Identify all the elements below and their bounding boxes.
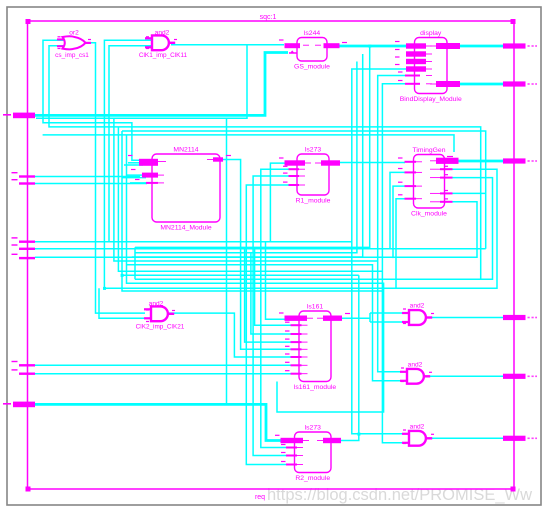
pin TimingGen out4 thin <box>440 192 453 194</box>
input port clr (bus) <box>3 113 35 119</box>
pin TimingGen in2 <box>405 171 417 173</box>
wire display thin pin y75.5 vertical to gate2 <box>378 76 408 372</box>
pin stubs R2 inner <box>297 441 323 465</box>
pin name marks R1 <box>279 157 288 182</box>
pin display out1 <box>436 43 460 49</box>
wire bundle y291 <box>122 275 384 291</box>
wire or2 input2 long run to right column <box>49 46 481 280</box>
pin ls161 thin3 <box>291 341 302 343</box>
wire display thin pin y83.8 vertical to gate3 <box>382 84 408 443</box>
and-gate ClK1 <box>139 30 188 60</box>
wire bundle y257 to display <box>132 54 363 257</box>
wire timinggen left pin4 feeder <box>396 199 405 289</box>
pin ls161 in bus <box>285 316 308 321</box>
wire port4 long to timinggen column <box>35 248 486 250</box>
and-gate U3 right <box>402 424 432 446</box>
wire ls161 thin feeder y325 <box>255 249 302 325</box>
pin ls161 out bus <box>323 316 342 321</box>
pin display in2 <box>406 51 426 56</box>
wire MN2114 stub pin wires <box>122 163 149 183</box>
input port a <box>12 237 36 243</box>
wire display pin y69 long vertical <box>352 69 408 434</box>
pin ls161 thin5 <box>291 356 302 358</box>
pin display in4 <box>406 66 426 71</box>
pin R1 in thin2 <box>289 175 300 177</box>
frame title sqc:1 <box>260 14 277 21</box>
pin display out2 <box>436 81 460 87</box>
pin display in1 <box>406 43 426 48</box>
block ls161_module <box>294 304 337 392</box>
svg-text:cs_imp_cs1: cs_imp_cs1 <box>55 52 89 59</box>
pin ls161 thin4 <box>291 348 302 350</box>
pin R1 in thin1 <box>289 168 300 170</box>
wire and2 ClK1 output to ls244 input <box>171 44 284 46</box>
pin stubs R1 inner <box>299 163 321 185</box>
watermark text <box>267 486 532 504</box>
pin TimingGen out5 thin <box>440 201 453 203</box>
input port data (bus) <box>3 402 35 408</box>
svg-text:or2: or2 <box>69 30 79 37</box>
wire timinggen left pin2 feeder <box>390 172 405 248</box>
input port din1 <box>12 172 36 178</box>
svg-text:req: req <box>255 494 265 501</box>
wire long horizontal y131 to right column <box>122 131 486 249</box>
wire R1 input from bundle <box>270 163 287 242</box>
svg-text:ls244: ls244 <box>304 30 320 37</box>
svg-text:ls161_module: ls161_module <box>294 384 337 391</box>
wire port6 to ls161 <box>35 364 302 366</box>
pin R2 thin3 <box>286 464 297 466</box>
pin ls161 thin2 <box>291 333 302 335</box>
pin name marks R2 <box>275 435 286 462</box>
wire port7 to ls161 <box>35 373 302 375</box>
pin ls161 thin6 <box>291 364 302 366</box>
pin display in5 thin <box>405 75 420 77</box>
and-gate U2 right <box>400 362 430 384</box>
wire timinggen right thin pin3 stub <box>452 192 486 194</box>
junction dot <box>103 45 371 436</box>
pin stubs TimingGen inner <box>416 161 440 202</box>
wire timinggen right thin pin2 down <box>135 178 493 280</box>
wire and2 gate3 output to port <box>430 437 504 439</box>
pin name marks ls244 <box>279 39 347 43</box>
svg-text:and2: and2 <box>408 362 423 369</box>
frame label req <box>255 494 265 501</box>
wire R1 thin pin2 down to R2 <box>253 176 291 456</box>
pin MN2114 in3 thin <box>146 182 158 184</box>
pin name marks display <box>395 41 403 81</box>
wire and2 ClK1 input1 vertical <box>104 40 151 288</box>
svg-text:and2: and2 <box>149 301 164 308</box>
pin R2 out bus <box>323 438 341 443</box>
wire vertical x118.4 bundle <box>118 127 382 271</box>
pin TimingGen in1 <box>405 161 417 163</box>
pin marks gates <box>58 36 435 444</box>
wire long vertical x226.5 <box>226 118 228 404</box>
wire bundle y264.7 to and2 gate2 input2 <box>127 265 402 381</box>
pin ls161 thin7 <box>291 373 302 375</box>
wire R1 output to TimingGen <box>340 162 405 164</box>
pin MN2114 in1 bus <box>139 159 158 166</box>
wire port3 to display column <box>35 241 352 243</box>
pin R2 in bus <box>281 438 304 443</box>
pin TimingGen in4 <box>405 198 417 200</box>
wire port5 long to timinggen column <box>35 202 477 257</box>
wire bus from port clr to ls244 clk column <box>35 53 288 116</box>
pin TimingGen in3 <box>405 185 417 187</box>
and-gate U1 right <box>402 303 432 325</box>
svg-text:R1_module: R1_module <box>296 198 331 205</box>
pin stubs display inner <box>426 46 436 84</box>
pin name marks ls161 <box>279 312 350 371</box>
svg-text:R2_module: R2_module <box>295 475 330 482</box>
wire timinggen output bus to port <box>458 160 503 163</box>
output port q2 <box>503 374 537 379</box>
input port d <box>12 361 36 367</box>
pin display in6 thin <box>405 83 420 85</box>
and-gate ClK2 <box>136 301 185 331</box>
pin R2 thin2 <box>286 455 297 457</box>
svg-text:ls161: ls161 <box>307 304 323 311</box>
svg-text:MN2114_Module: MN2114_Module <box>160 225 211 232</box>
pin R2 thin1 <box>286 447 297 449</box>
svg-text:ClK1_imp_ClK11: ClK1_imp_ClK11 <box>139 52 188 59</box>
svg-text:BindDisplay_Module: BindDisplay_Module <box>400 96 462 103</box>
wire display output1 to port <box>456 45 503 48</box>
wire bundle y247.4 <box>135 46 370 247</box>
output port q1 <box>503 315 537 320</box>
output port seg <box>503 43 537 48</box>
wire and2 ClK2 input2 from bundle <box>99 288 145 318</box>
wire or2 input1 loop <box>43 40 143 160</box>
wire from port at y118 to ls244 input column <box>36 45 247 118</box>
svg-text:and2: and2 <box>410 424 425 431</box>
wire R2 output up <box>341 275 359 440</box>
block ls244 GS_module <box>294 30 330 71</box>
svg-text:ls273: ls273 <box>305 147 321 154</box>
pin TimingGen out bus <box>436 158 459 164</box>
wire below ls161 to right column <box>277 283 384 413</box>
pin display in3 <box>406 59 426 64</box>
wire vertical x113.9 bundle <box>114 118 378 261</box>
wire ls161 thin feeder y342 <box>245 247 302 342</box>
input port din2 <box>12 179 36 185</box>
input port b <box>12 244 36 250</box>
pin R1 out bus <box>321 160 340 165</box>
svg-text:Clk_module: Clk_module <box>411 211 447 218</box>
svg-text:MN2114: MN2114 <box>173 147 198 154</box>
pin ls244 input <box>285 43 301 48</box>
block ls273 R2_module <box>295 425 332 483</box>
svg-text:sqc:1: sqc:1 <box>260 14 277 21</box>
wire ls161 thin feeder y334 <box>251 253 302 334</box>
wire ls161 clock feeder <box>266 242 286 320</box>
wire MN2114 output down <box>223 160 302 350</box>
wire or2 output down to and2 ClK2 input1 <box>86 43 145 313</box>
output port clkout <box>503 158 537 163</box>
svg-text:ls273: ls273 <box>305 425 321 432</box>
pin stubs ls161 inner <box>302 318 324 374</box>
block TimingGen Clk_module <box>411 147 447 218</box>
pin name marks MN2114 <box>128 155 231 180</box>
wire ls161 output to and2 gate1 <box>342 313 403 322</box>
output port q3 <box>503 436 537 441</box>
wire bundle y252.7 to display <box>135 62 357 253</box>
wire port din2 to MN2114 <box>35 183 147 185</box>
pin TimingGen out2 thin <box>440 168 453 170</box>
wire vertical x126.5 bundle <box>127 135 384 283</box>
block MN2114_Module <box>152 147 220 232</box>
wire R1 thin pin3 down to R2 <box>246 185 291 465</box>
pin stubs MN2114 inner <box>158 160 213 183</box>
svg-text:display: display <box>420 30 442 37</box>
wire bundle y288.3 to timinggen pin <box>104 169 497 288</box>
svg-text:and2: and2 <box>155 30 170 37</box>
pin stubs ls244 inner <box>303 44 321 46</box>
pin TimingGen out3 thin <box>440 177 453 179</box>
pin ls244 output <box>324 43 340 48</box>
pin name marks TimingGen <box>398 156 453 200</box>
wire bus port8 to R2 input <box>35 404 281 440</box>
pin R1 in thin3 <box>289 184 300 186</box>
pin ls244 clk <box>289 50 298 53</box>
wire timinggen left pin3 feeder <box>393 186 405 258</box>
block display BindDisplay_Module <box>400 30 462 103</box>
pin MN2114 out <box>213 157 223 161</box>
input port c <box>12 254 36 260</box>
wire ls244 output bus to display <box>339 45 408 48</box>
wire and2 gate1 output to port <box>430 317 504 319</box>
wire vertical x122 bundle <box>122 131 359 275</box>
wire and2 ClK2 output down to ls161 <box>169 313 302 357</box>
output port sel <box>503 81 537 86</box>
wire vertical x135 bundle tie <box>134 247 136 279</box>
svg-text:GS_module: GS_module <box>294 64 330 71</box>
svg-text:and2: and2 <box>410 303 425 310</box>
input port e <box>12 369 36 375</box>
pin ls161 thin1 <box>291 324 302 326</box>
pin MN2114 in2 <box>142 173 158 178</box>
pin R1 in bus <box>285 160 306 165</box>
wire R1 thin pin1 down to R2 <box>261 169 291 447</box>
wire and2 gate2 output to port <box>430 375 504 377</box>
wire short horizontal y134.9 <box>43 135 454 152</box>
block ls273 R1_module <box>296 147 331 205</box>
wire port din to MN2114 <box>35 176 140 178</box>
svg-text:TimingGen: TimingGen <box>413 147 446 154</box>
wire display output2 to port <box>456 83 503 86</box>
svg-text:ClK2_imp_ClK21: ClK2_imp_ClK21 <box>136 324 185 331</box>
or-gate or2 <box>55 30 91 60</box>
wire and2 ClK1 input2 vertical <box>109 46 151 242</box>
